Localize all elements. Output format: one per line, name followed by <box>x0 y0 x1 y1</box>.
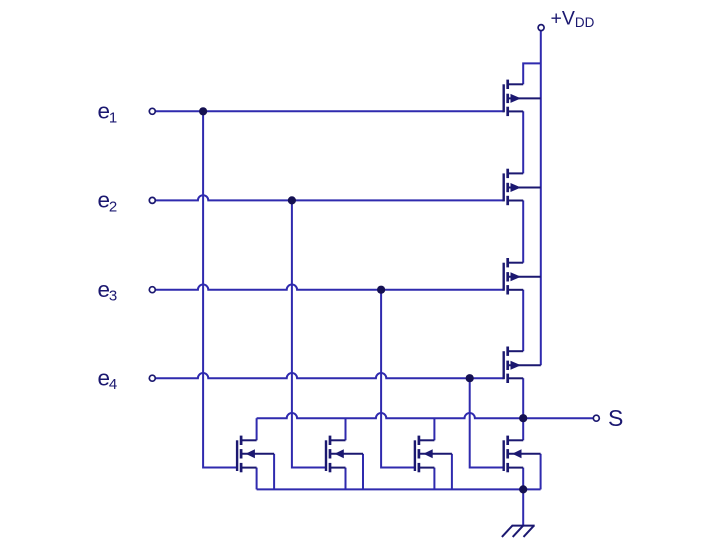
svg-text:S: S <box>608 405 623 431</box>
